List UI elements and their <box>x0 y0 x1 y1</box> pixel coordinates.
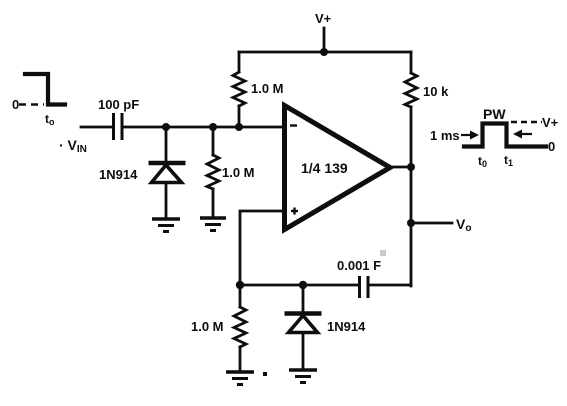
node Vo <box>407 219 415 227</box>
svg-text:0: 0 <box>548 139 555 154</box>
wire bottom feedback line <box>240 284 411 287</box>
svg-text:V+: V+ <box>542 115 559 130</box>
V+ supply stub <box>323 28 326 52</box>
label 1 ms with arrow <box>430 128 479 143</box>
svg-text:1.0 M: 1.0 M <box>191 319 224 334</box>
svg-text:10 k: 10 k <box>423 84 449 99</box>
capacitor C1 100 pF <box>114 113 123 140</box>
node output <box>407 163 415 171</box>
svg-text:V+: V+ <box>315 11 332 26</box>
ground (under R2) <box>200 218 226 231</box>
node D (bottom left junction) <box>236 281 244 289</box>
output pulse waveform <box>464 124 546 147</box>
ground (under R4) <box>226 372 254 385</box>
wire output column down <box>410 167 413 286</box>
wire output <box>390 166 411 169</box>
svg-text:1 ms: 1 ms <box>430 128 460 143</box>
dashed V+ level line <box>511 121 542 123</box>
node C (pull-up junction) <box>235 123 243 131</box>
svg-text:1.0 M: 1.0 M <box>251 81 284 96</box>
diode D2 1N914 <box>285 285 322 369</box>
node B (resistor junction) <box>209 123 217 131</box>
svg-text:1.0 M: 1.0 M <box>222 165 255 180</box>
ground (under D1) <box>152 219 180 232</box>
diode D1 1N914 <box>149 127 186 218</box>
node V+ <box>320 48 328 56</box>
wire Vo stub <box>411 222 452 225</box>
stray mark (scan dot) <box>263 372 267 376</box>
svg-text:0.001 F: 0.001 F <box>337 258 381 273</box>
svg-text:100 pF: 100 pF <box>98 97 139 112</box>
svg-text:0: 0 <box>12 97 19 112</box>
resistor R4 1.0 M (timing to ground) <box>234 285 246 371</box>
node A (diode junction) <box>162 123 170 131</box>
arrow (right side pointing left) <box>513 130 532 139</box>
capacitor C2 0.001 F <box>360 276 369 298</box>
input step waveform <box>19 74 65 105</box>
ground (under D2) <box>289 370 317 383</box>
svg-text:1N914: 1N914 <box>327 319 366 334</box>
wire V+ rail <box>239 51 411 54</box>
op-amp U1 1/4 139 <box>285 106 391 230</box>
resistor R1 1.0 M (pull-up from V+) <box>233 52 245 127</box>
wire capacitor to inverting input <box>123 126 284 129</box>
resistor R2 1.0 M (inverting input to ground) <box>207 127 219 217</box>
resistor R3 10 k (output pull-up) <box>405 52 417 166</box>
svg-text:1N914: 1N914 <box>99 167 138 182</box>
node E (bottom diode junction) <box>299 281 307 289</box>
wire non-inverting input <box>240 211 284 285</box>
svg-text:1/4 139: 1/4 139 <box>301 160 348 176</box>
svg-text:PW: PW <box>483 106 506 122</box>
wire input to capacitor <box>81 126 112 129</box>
